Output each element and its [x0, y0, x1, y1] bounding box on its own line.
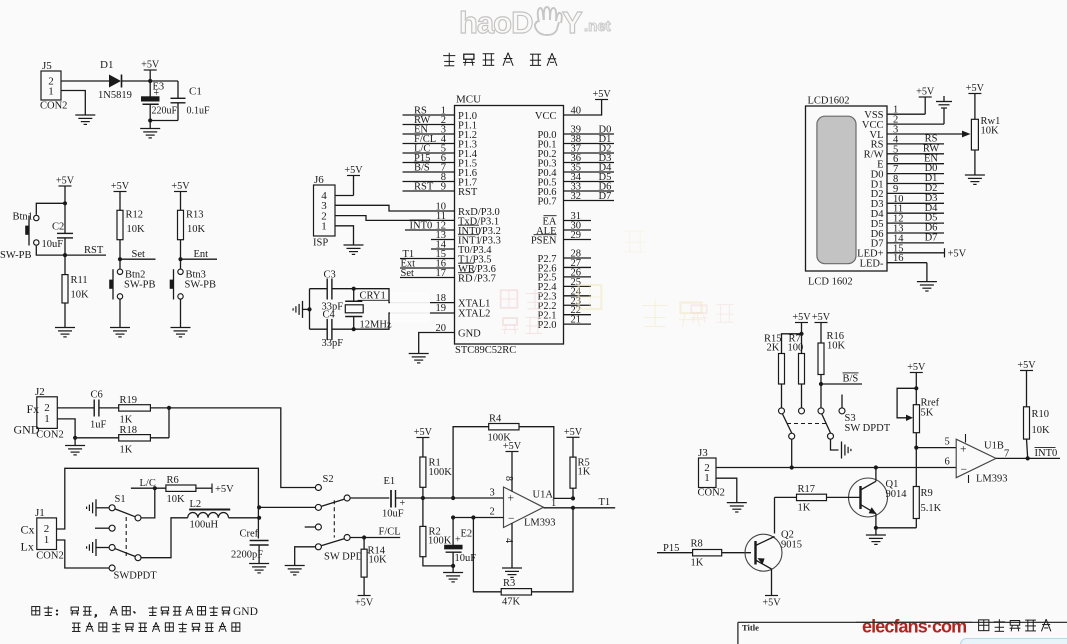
svg-text:+5V: +5V [141, 60, 160, 71]
wire LCD pin 12 (D5) [871, 213, 944, 230]
svg-text:C6: C6 [91, 390, 103, 401]
svg-text:19: 19 [436, 303, 447, 314]
svg-text:21: 21 [571, 315, 582, 326]
wire LCD pin 3 (VL) [870, 125, 963, 141]
wire MCU pin 24 (P2.3) [538, 286, 591, 302]
wire MCU pin 29 (PSEN) [531, 230, 591, 246]
svg-text:5.1K: 5.1K [921, 503, 942, 514]
wire S3 right pole to ground [831, 439, 839, 450]
svg-text:LM393: LM393 [524, 518, 556, 529]
svg-text:2: 2 [490, 507, 495, 518]
wire MCU pin 3 (P1.2) [403, 125, 477, 141]
svg-text:+: + [154, 88, 160, 99]
svg-text:,: , [95, 607, 98, 619]
MCU pin 19 XTAL2 [436, 303, 491, 319]
wire MCU pin 16 (WR/P3.6) [400, 259, 496, 275]
svg-text:3: 3 [490, 488, 495, 499]
wire J5 pin2 to D1 [61, 80, 109, 82]
crystal CRY1 12MHz [345, 289, 392, 331]
node E2 top [451, 515, 455, 519]
wire J2 pin1 to R18 [57, 419, 75, 438]
svg-text:B/S: B/S [843, 374, 859, 385]
svg-text:5: 5 [945, 437, 950, 448]
svg-text:C3: C3 [324, 270, 336, 281]
bottom-right blue panel [961, 639, 1067, 644]
svg-text:J3: J3 [698, 447, 708, 459]
svg-text:Y: Y [562, 5, 583, 40]
node B/S tap [819, 382, 823, 386]
switch S2 SW DPDT [315, 474, 370, 563]
capacitor C3 33pF [322, 270, 344, 313]
node XTAL2/crystal [352, 327, 356, 331]
svg-text:9: 9 [441, 182, 446, 193]
ground below U1A [502, 568, 522, 577]
wire R3 feedback loop left [473, 518, 501, 592]
resistor R12 10K [117, 210, 145, 260]
wire B/S net [821, 373, 862, 385]
wire Btn2 to ground [119, 299, 121, 327]
wire J6 pin1 to ground [335, 226, 354, 245]
wire MCU pin 40 VCC to +5V [535, 100, 602, 122]
wire MCU pin 11 (TxD/P3.1) [436, 211, 499, 227]
wire L2 to node [229, 517, 260, 519]
node E2 bottom / R2 [451, 564, 455, 568]
power +5V (Q2 emitter, below) [762, 596, 781, 609]
ground below E2 [443, 566, 463, 582]
wire XTAL2 to MCU pin19 [354, 313, 455, 329]
node R14 tap [362, 535, 366, 539]
wire MCU pin 21 (P2.0) [538, 315, 591, 331]
capacitor C1 0.1uF [171, 81, 211, 121]
resistor R10 10K [1024, 407, 1051, 459]
svg-text:+5V: +5V [355, 598, 374, 609]
ground below Q1 [866, 528, 886, 545]
node crystal ground rail [307, 307, 311, 311]
wire MCU pin20 GND to ground [419, 333, 455, 354]
svg-text:10K: 10K [187, 224, 206, 235]
wire D1 to +5V node [122, 80, 179, 82]
svg-text:100uH: 100uH [190, 520, 219, 531]
capacitor E2 10uF [445, 518, 477, 566]
wire MCU pin 32 (P0.7 / D7) [538, 191, 614, 208]
svg-text:、: 、 [133, 609, 139, 615]
node RST [63, 253, 67, 257]
svg-text:+5V: +5V [503, 441, 522, 452]
wire LCD pin 7 (D0) [871, 163, 944, 180]
wire S1 contact2 stub [95, 527, 109, 529]
wire MCU pin 7 (P1.6) [403, 162, 477, 179]
svg-text:P0.7: P0.7 [538, 196, 557, 207]
svg-text:+5V: +5V [592, 89, 611, 100]
wire C6 to R19 [99, 407, 119, 409]
wire MCU pin 26 (P2.5) [538, 267, 591, 283]
wire node to Btn1 top [36, 203, 65, 214]
svg-text:VCC: VCC [535, 111, 557, 122]
ground below Btn2 [110, 328, 130, 337]
wire LCD pin 8 (D1) [871, 173, 944, 190]
wire Btn3 to ground [180, 299, 182, 327]
note line 2 (Chinese) [72, 622, 240, 631]
svg-text:haoD: haoD [459, 5, 533, 40]
node output / R3 [571, 506, 575, 510]
capacitor E1 10uF [382, 476, 406, 520]
wire J6 pin2 to MCU pin11 [335, 216, 455, 221]
node Q1 emitter [874, 526, 878, 530]
node R1/R2 divider [421, 496, 425, 500]
svg-text:1K: 1K [120, 415, 133, 426]
wire J1 pin2 loop to Cref node [57, 468, 259, 538]
svg-text:+5V: +5V [564, 427, 583, 438]
svg-text:5K: 5K [921, 408, 934, 419]
svg-text:B/S: B/S [414, 163, 430, 174]
ground MCU pin20 [409, 354, 429, 363]
node comparator pin5 [914, 446, 918, 450]
svg-text:32: 32 [571, 191, 582, 202]
svg-text:+5V: +5V [966, 83, 985, 94]
wire MCU pin 31 (EA) [543, 211, 592, 227]
wire MCU pin 25 (P2.4) [538, 277, 591, 293]
wire S3 left pole to bus [791, 439, 793, 467]
wire MCU pin 1 (P1.0) [403, 106, 477, 122]
switch S3 SW DPDT [779, 395, 891, 440]
resistor R17 1K [775, 484, 827, 514]
svg-text:LM393: LM393 [976, 474, 1008, 485]
node R15/R7 feed [799, 332, 803, 336]
wire LCD pin 9 (D2) [871, 183, 944, 200]
resistor R16 10K [818, 331, 846, 408]
svg-text:1: 1 [44, 534, 50, 546]
wire MCU pin 12 (INT0/P3.2) [405, 220, 501, 237]
node U1B output / R10 [1026, 456, 1030, 460]
svg-text:R18: R18 [120, 425, 138, 436]
wire MCU pin 38 (P0.1 / D1) [538, 134, 614, 151]
svg-text:RD: RD [458, 273, 473, 284]
resistor R13 10K [178, 210, 206, 260]
svg-text:LED-: LED- [860, 259, 884, 270]
connector J3 [698, 447, 725, 499]
wire LCD pin 13 (D6) [871, 223, 944, 240]
wire XTAL1 to MCU pin18 [354, 289, 455, 303]
svg-text:SW DPDT: SW DPDT [845, 423, 891, 434]
wire LCD pin 11 (D4) [871, 203, 944, 220]
wire MCU pin 23 (P2.2) [538, 296, 591, 312]
power +5V (R5) [564, 427, 583, 457]
logo elecfans.com [862, 617, 966, 637]
svg-text:XTAL2: XTAL2 [458, 309, 490, 320]
comparator U1A LM393 [503, 441, 556, 568]
svg-text:−: − [508, 513, 515, 525]
wire R3 to output node [532, 508, 574, 592]
wire comparator bus (pin 6) [716, 457, 956, 468]
wire J6 pin4 to +5V [335, 195, 354, 197]
svg-text:GND: GND [458, 328, 481, 339]
svg-text:INT0: INT0 [410, 221, 433, 232]
ground (S3, rotated) [842, 442, 851, 459]
resistor R11 10K [62, 255, 89, 327]
svg-text:D7: D7 [599, 191, 612, 202]
capacitor C2 10uF [42, 203, 74, 255]
svg-text:1K: 1K [691, 558, 704, 569]
ground LCD pin16 [917, 282, 937, 291]
wire +5V node to R15 [782, 334, 802, 354]
wire MCU pin 28 (P2.7) [538, 249, 591, 265]
pushbutton Btn2 SW-PB [110, 259, 156, 299]
wire MCU pin 6 (P1.5) [403, 153, 477, 169]
svg-text:J5: J5 [42, 60, 52, 72]
svg-text:Cx: Cx [21, 523, 35, 537]
svg-text:C1: C1 [189, 86, 202, 98]
wire E3/C1 bottom [150, 120, 178, 122]
svg-text:10K: 10K [127, 224, 146, 235]
watermark pale pink glyphs [501, 289, 545, 334]
svg-text:CON2: CON2 [36, 430, 63, 441]
svg-text:+5V: +5V [344, 165, 363, 176]
wire R4 feedback loop [453, 427, 489, 498]
wire MCU pin 15 (T1/P3.5) [400, 249, 492, 265]
power +5V (J6) [344, 165, 363, 195]
svg-text:J1: J1 [35, 507, 45, 519]
power +5V (R14, below) [355, 596, 374, 609]
svg-text:R19: R19 [120, 395, 138, 406]
power +5V port (R6) [212, 484, 234, 496]
svg-text:1uF: 1uF [90, 420, 107, 431]
svg-text:20: 20 [436, 323, 447, 334]
wire MCU pin 4 (P1.3) [403, 134, 477, 150]
MCU U? STC89C52RC box [455, 94, 564, 357]
power +5V (LCD pin1) [916, 87, 935, 115]
svg-text:INT0: INT0 [1035, 448, 1058, 459]
svg-text:+5V: +5V [762, 598, 781, 609]
pushbutton Btn1 SW-PB [0, 212, 39, 262]
potentiometer Rw1 10K [966, 83, 1001, 175]
diode D1 1N5819 [98, 59, 132, 101]
power +5V port (LCD LED+) [945, 248, 967, 259]
wire LCD pin 4 (RS) [871, 134, 944, 151]
wire MCU pin 8 (P1.7) [403, 172, 477, 188]
inductor L2 100uH [188, 499, 231, 531]
svg-text:J2: J2 [35, 386, 45, 398]
wire MCU pin 13 (INT1/P3.3) [431, 230, 501, 246]
title block label [742, 623, 759, 633]
capacitor C6 1uF [90, 390, 107, 431]
svg-text:+5V: +5V [916, 87, 935, 98]
svg-text:CON2: CON2 [36, 551, 63, 562]
wire J6 pin3 to MCU pin10 [335, 205, 455, 211]
svg-text:29: 29 [571, 230, 582, 241]
note line 1 (Chinese) [32, 606, 258, 619]
resistor R4 100K [488, 414, 520, 444]
resistor R8 1K [691, 539, 722, 569]
wire S2 contact4 to ground [295, 547, 316, 566]
svg-text:R11: R11 [71, 275, 88, 286]
svg-text:+5V: +5V [907, 362, 926, 373]
node R19/R18 junction [167, 406, 171, 410]
svg-text:R17: R17 [798, 484, 816, 495]
wire U1B output / INT0 net [996, 447, 1060, 459]
svg-text:GND: GND [233, 606, 258, 618]
svg-text:Cref: Cref [240, 529, 259, 540]
title block frame [738, 622, 1067, 644]
wire S1 pole2 to L2 [142, 518, 188, 558]
wire crystal left rail [309, 289, 311, 330]
resistor R5 1K [570, 457, 591, 498]
logo text (Chinese) elecfans [979, 619, 1051, 631]
svg-text:+5V: +5V [215, 484, 234, 495]
node +5V/E3/C1 junction [148, 79, 152, 83]
svg-text:LCD1602: LCD1602 [808, 96, 850, 107]
wire MCU pin 30 (ALE) [536, 221, 591, 237]
svg-text:R10: R10 [1032, 409, 1050, 420]
svg-text:R13: R13 [186, 210, 204, 221]
wire R9 bottom to Q1 emitter [876, 527, 916, 529]
connector J5 [40, 60, 67, 112]
wire MCU pin 39 (P0.0 / D0) [538, 124, 614, 141]
resistor R7 100 [788, 334, 805, 408]
comparator U1B LM393 [956, 434, 1009, 485]
wire MCU pin 36 (P0.3 / D3) [538, 153, 614, 170]
svg-text:1: 1 [44, 413, 50, 425]
svg-text:elecfans·com: elecfans·com [862, 617, 966, 637]
wire RST net [65, 245, 106, 256]
svg-text:9014: 9014 [886, 489, 908, 500]
svg-text:2K: 2K [767, 343, 780, 354]
power +5V (top-left) [141, 60, 160, 81]
svg-text:10K: 10K [369, 555, 388, 566]
ground S2 contact4 [285, 566, 305, 575]
svg-text:SWDPDT: SWDPDT [114, 571, 158, 582]
svg-text:10K: 10K [1032, 425, 1051, 436]
arrow LCD VL to Rw1 wiper [962, 131, 971, 138]
svg-text:Set: Set [132, 249, 146, 260]
connector J1 [35, 507, 64, 562]
transistor Q1 9014 [827, 468, 908, 528]
svg-text:E1: E1 [384, 476, 396, 487]
svg-text:U1A: U1A [533, 490, 554, 501]
wire comparator pin5 [916, 437, 956, 448]
wire E1 to comparator + input [396, 488, 504, 499]
svg-text:4: 4 [503, 538, 514, 543]
connector J6 ISP [313, 174, 335, 249]
node L/C junction [153, 486, 157, 490]
svg-text:+5V: +5V [414, 427, 433, 438]
wire P15 to R8 [657, 552, 693, 554]
wire LCD pin 10 (D3) [871, 193, 944, 210]
svg-text:1: 1 [48, 86, 54, 98]
svg-text:Btn1: Btn1 [13, 212, 33, 223]
resistor R18 1K [75, 408, 169, 456]
capacitor E3 220uF [142, 81, 178, 121]
svg-text:0.1uF: 0.1uF [187, 106, 211, 117]
ground below R11 [55, 328, 75, 337]
ground (S1 contact3, rotated) [87, 539, 109, 556]
net label Cx [21, 523, 35, 537]
logo haoDIY.net (watermark) [459, 5, 611, 40]
svg-text:+: + [960, 444, 967, 456]
svg-text:10uF: 10uF [382, 509, 404, 520]
svg-text:1K: 1K [798, 503, 811, 514]
node L2 tap [257, 516, 261, 520]
svg-text:+: + [508, 493, 515, 505]
svg-text:−: − [961, 464, 968, 476]
svg-text:S2: S2 [323, 474, 334, 485]
wire LCD pin 5 (R/W) [864, 143, 944, 160]
ground below Btn3 [171, 328, 191, 337]
svg-text:10K: 10K [981, 126, 1000, 137]
wire LCD pin 16 (LED-) [860, 253, 927, 269]
svg-text:12MHz: 12MHz [360, 320, 392, 331]
node XTAL1/crystal [352, 287, 356, 291]
svg-text:GND: GND [14, 423, 40, 437]
resistor R2 100K [420, 498, 453, 566]
wire U1A inverting input [453, 507, 503, 518]
svg-text:+5V: +5V [1017, 360, 1036, 371]
svg-text:RST: RST [84, 245, 104, 256]
svg-text:100: 100 [788, 343, 804, 354]
capacitor Cref 2200pF [231, 529, 269, 564]
pushbutton Btn3 SW-PB [170, 259, 216, 299]
svg-text:SW-PB: SW-PB [185, 280, 217, 291]
node J2 pin1 / R18 [73, 436, 77, 440]
ground J2 pin1 [65, 438, 85, 455]
wire XTAL2 bottom rail [310, 328, 354, 330]
svg-text:SW-PB: SW-PB [124, 280, 156, 291]
net label Fx [27, 402, 40, 416]
svg-text:2200pF: 2200pF [231, 550, 263, 561]
wire XTAL1 top rail [310, 288, 354, 290]
svg-text:T1: T1 [599, 497, 611, 508]
svg-text:Ent: Ent [194, 249, 209, 260]
wire J1 pin1 to S1 contact4 [57, 540, 109, 568]
wire MCU pin 5 (P1.4) [403, 144, 478, 160]
svg-text:J6: J6 [314, 174, 324, 186]
wire S2 pole2 F/CL net [350, 527, 400, 538]
ground (S1 contact1, rotated) [87, 499, 109, 516]
svg-text:33pF: 33pF [322, 338, 344, 349]
wire title block line over logo [856, 621, 972, 623]
resistor R15 2K [764, 334, 785, 408]
svg-text:PSEN: PSEN [531, 235, 557, 246]
svg-text:MCU: MCU [456, 94, 481, 106]
switch S1 SW DPDT [109, 494, 157, 582]
svg-text:/P3.7: /P3.7 [474, 273, 496, 284]
svg-text:RST: RST [458, 187, 478, 198]
svg-text:10K: 10K [827, 341, 846, 352]
svg-text:6: 6 [945, 457, 950, 468]
potentiometer Rref 5K [897, 388, 940, 447]
svg-text:+5V: +5V [111, 181, 130, 192]
svg-text:R9: R9 [921, 488, 933, 499]
svg-text:S1: S1 [115, 494, 126, 505]
svg-text:C4: C4 [323, 310, 336, 321]
wire S2 pole1 to E1 [350, 497, 389, 499]
svg-text:R12: R12 [126, 210, 144, 221]
svg-text:+5V: +5V [171, 181, 190, 192]
svg-text:Fx: Fx [27, 402, 40, 416]
svg-text:10K: 10K [71, 290, 90, 301]
node bus / Q1 collector [874, 465, 878, 469]
ground (crystal, rotated) [293, 301, 309, 318]
svg-text:Lx: Lx [21, 540, 34, 554]
svg-text:R6: R6 [167, 475, 179, 486]
capacitor C4 33pF [322, 310, 344, 350]
wire MCU pin 2 (P1.1) [403, 115, 477, 131]
node R4 left [451, 496, 455, 500]
svg-text::: : [56, 606, 59, 618]
wire LCD pin16 to ground [926, 263, 928, 282]
power +5V (R12 column) [111, 181, 130, 210]
svg-text:+5V: +5V [792, 312, 811, 323]
power +5V (R13 column) [171, 181, 190, 210]
